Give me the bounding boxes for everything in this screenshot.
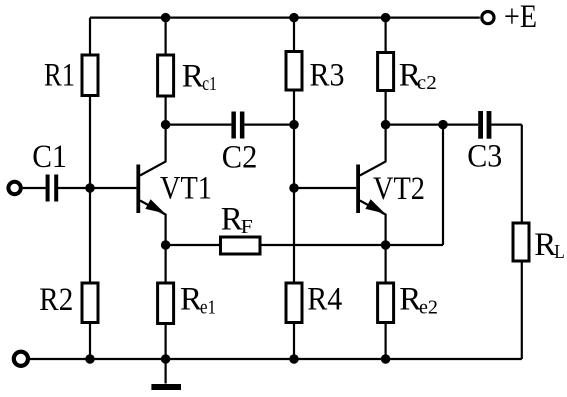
terminal +E: [482, 12, 494, 24]
svg-text:c1: c1: [202, 73, 217, 95]
capacitor C1 plates: [46, 175, 50, 202]
svg-text:e1: e1: [200, 297, 216, 319]
resistor R4: [286, 283, 302, 323]
wire bottom rail: [30, 358, 522, 360]
resistor Re2: [378, 283, 394, 323]
resistor Rc2: [378, 53, 394, 91]
resistor R1: [82, 55, 98, 96]
wire input terminal to C1: [23, 187, 46, 189]
wire VT2 emitter to Re2 to bottom rail: [385, 214, 387, 359]
wire VT1 emitter to Re1 to bottom rail: [165, 214, 167, 359]
node top rail / Rc2: [381, 13, 391, 23]
node bottom rail / Re1-ground: [161, 354, 171, 364]
wire C2 row right segment: [244, 123, 294, 125]
node top rail / R3: [289, 13, 299, 23]
resistor Rc1: [158, 55, 174, 96]
svg-text:c2: c2: [417, 72, 437, 94]
resistor R2: [82, 283, 98, 323]
wire ground stem: [165, 359, 167, 384]
terminal bottom left: [14, 352, 28, 366]
node R3-R4 / VT2 base: [289, 183, 299, 193]
svg-text:L: L: [554, 241, 565, 263]
terminal input (top left): [8, 182, 20, 194]
wire left column x=90 (R1/R2 branch): [89, 18, 91, 359]
svg-text:F: F: [241, 216, 253, 238]
svg-text:R: R: [221, 202, 243, 238]
node bottom rail / R2: [85, 354, 95, 364]
node bottom rail / Re2: [381, 354, 391, 364]
svg-text:C1: C1: [32, 139, 67, 175]
capacitor C3 plates: [478, 111, 483, 139]
node VT2 emitter / feedback wire: [381, 240, 391, 250]
svg-text:R: R: [180, 282, 202, 318]
svg-text:C3: C3: [467, 139, 502, 175]
resistor R3: [286, 52, 302, 91]
svg-text:+E: +E: [504, 0, 537, 35]
svg-text:VT1: VT1: [160, 171, 212, 207]
capacitor C2 plates: [231, 112, 236, 139]
resistor RL (load): [513, 223, 529, 261]
ground: [151, 384, 181, 390]
svg-text:VT2: VT2: [373, 171, 425, 207]
wire feedback tap vertical x=443: [442, 125, 444, 245]
node Rc2 / VT2 collector: [381, 120, 391, 130]
wire R3/R4 column: [293, 18, 295, 359]
wire Rc2/VT2 column upper: [385, 18, 387, 162]
wire VT2 base: [294, 187, 356, 189]
svg-text:R: R: [182, 59, 204, 95]
svg-text:R4: R4: [307, 282, 342, 318]
wire Rc1/VT1/Re1 column upper: [165, 18, 167, 162]
wire C1 to VT1 base: [58, 187, 137, 189]
wire C2 row left segment: [166, 123, 232, 125]
transistor VT2: [356, 161, 386, 215]
wire top rail: [90, 17, 480, 19]
node VT1 emitter / RF: [161, 240, 171, 250]
wire C3 row right segment: [491, 123, 521, 125]
svg-text:R: R: [534, 227, 556, 263]
node C2 / R3: [289, 120, 299, 130]
resistor Re1: [158, 283, 174, 324]
svg-text:R1: R1: [44, 58, 75, 94]
svg-text:C2: C2: [222, 140, 257, 176]
svg-text:R2: R2: [39, 282, 73, 318]
wire C3 row left segment: [386, 123, 479, 125]
resistor RF (feedback): [221, 237, 261, 254]
node feedback tap on output wire: [438, 120, 448, 130]
svg-text:e2: e2: [419, 297, 438, 319]
node input / R1-R2: [85, 183, 95, 193]
node bottom rail / R4: [289, 354, 299, 364]
node Rc1 bottom / C2: [161, 120, 171, 130]
transistor VT1: [136, 161, 166, 215]
svg-text:R: R: [399, 282, 421, 318]
wire feedback row y=245: [166, 244, 443, 246]
svg-text:R3: R3: [310, 58, 345, 94]
wire output/RL column x=521.8: [521, 125, 523, 359]
node top rail / Rc1: [161, 13, 171, 23]
